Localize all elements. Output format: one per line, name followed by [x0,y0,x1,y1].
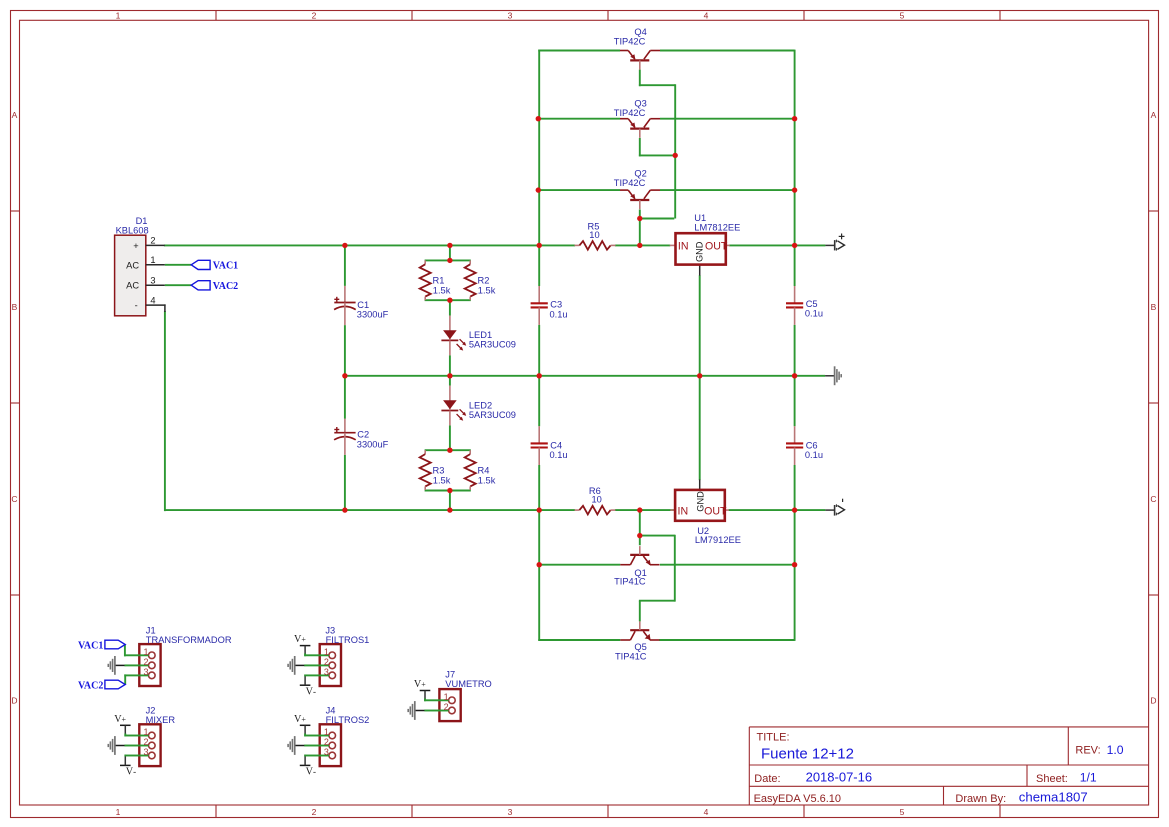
junction dots [536,116,541,121]
svg-text:1.0: 1.0 [1107,743,1124,757]
svg-text:Q4: Q4 [634,27,646,37]
wire J2 pin1 [124,734,126,737]
svg-text:A: A [1151,110,1157,120]
svg-text:LM7812EE: LM7812EE [694,222,740,232]
capacitor C6 0.1u [786,426,823,465]
resistor R2 1.5k [465,260,496,300]
svg-text:4: 4 [704,11,709,21]
svg-text:5AR3UC09: 5AR3UC09 [469,410,516,420]
svg-text:3: 3 [508,807,513,817]
wire J1 pin1 [124,645,126,657]
svg-text:AC: AC [126,281,139,291]
wire main top rail seg1 [164,244,575,246]
svg-text:1/1: 1/1 [1080,771,1097,785]
svg-text:TIP42C: TIP42C [614,178,646,188]
power flag V+ at J7 [420,690,431,692]
wire D1 pin4 down [164,311,166,511]
connector J1 TRANSFORMADOR [139,626,232,687]
svg-text:3300uF: 3300uF [357,439,389,449]
resistor R1 1.5k [420,260,451,300]
wire Q5 row left [538,639,620,641]
svg-text:J1: J1 [146,626,156,636]
svg-text:R3: R3 [433,465,445,475]
svg-text:1: 1 [144,647,149,657]
LED LED2 [441,386,516,426]
svg-text:chema1807: chema1807 [1019,790,1088,805]
wire J4 pin1 [304,734,306,737]
wire Q5 row right [659,639,794,641]
ground J2 pin2 [115,745,125,747]
power flag V- at J3 [300,684,311,686]
power flag V+ at J2 [120,724,131,726]
power flag V- at J4 [300,764,311,766]
svg-text:GND: GND [695,491,705,512]
netflag VAC2 at J1 [105,680,125,689]
svg-text:Fuente 12+12: Fuente 12+12 [761,746,854,763]
svg-text:TITLE:: TITLE: [757,732,790,744]
connector J4 FILTROS2 [320,706,370,767]
svg-text:0.1u: 0.1u [805,308,823,318]
svg-text:C3: C3 [550,300,562,310]
svg-text:IN: IN [678,241,689,253]
svg-text:3: 3 [150,276,155,286]
svg-text:TIP41C: TIP41C [615,652,647,662]
capacitor C4 0.1u [531,426,568,465]
svg-text:3: 3 [324,747,329,757]
wire U2 GND to mid rail [699,376,701,480]
wire J3 pin3 [304,674,320,676]
svg-text:KBL608: KBL608 [116,225,149,235]
transistor Q2 TIP42C [614,168,660,209]
ground J1 pin2 [115,664,125,666]
svg-text:4: 4 [704,807,709,817]
resistor R4 1.5k [465,450,496,490]
resistor R3 1.5k [420,450,451,490]
svg-text:2018-07-16: 2018-07-16 [806,770,873,785]
svg-text:1: 1 [150,255,155,265]
wire Q3 row right [660,118,795,120]
svg-text:0.1u: 0.1u [805,450,823,460]
wire Q2 row right [660,189,795,191]
transistor Q5 TIP41C [615,621,660,661]
svg-text:VAC2: VAC2 [78,681,103,692]
svg-text:1: 1 [116,11,121,21]
wire Q3 row left [538,118,620,120]
wire left rail [538,50,540,286]
power flag V- at J2 [120,764,131,766]
svg-text:3: 3 [144,667,149,677]
svg-text:LM7912EE: LM7912EE [695,535,741,545]
svg-text:1: 1 [144,727,149,737]
capacitor C2 electrolytic [334,419,389,455]
netflag V- output [825,499,844,516]
svg-text:5: 5 [900,11,905,21]
svg-text:OUT: OUT [705,241,728,253]
wire Q2 row left [538,189,620,191]
svg-text:V+: V+ [294,634,306,645]
svg-text:5: 5 [900,807,905,817]
svg-text:C4: C4 [550,441,562,451]
voltage regulator U1 LM7812EE [670,213,741,276]
svg-text:1.5k: 1.5k [478,475,496,485]
svg-text:2: 2 [324,657,329,667]
svg-text:C6: C6 [806,441,818,451]
wire Q3 collector jog [639,138,641,157]
svg-text:2: 2 [444,702,449,712]
wire lower rail seg1 [165,509,575,511]
wire Q2 collector to main [639,210,641,246]
svg-text:REV:: REV: [1075,745,1100,757]
wire Q4 row left [538,50,620,52]
svg-text:V+: V+ [294,714,306,725]
connector J2 MIXER [139,706,175,767]
title block [749,727,1148,805]
svg-text:5AR3UC09: 5AR3UC09 [469,340,516,350]
wire R1R2 top node [425,259,471,261]
wire Q1 branch [639,510,641,545]
power flag V+ at J4 [300,724,311,726]
capacitor C5 0.1u [786,286,823,325]
wire U1 GND to mid rail [699,275,701,376]
svg-text:GND: GND [694,241,704,262]
wire D1 pin1 to VAC1 [165,264,191,266]
wire R1R2 bottom node [425,299,471,301]
svg-text:10: 10 [592,494,602,504]
wire Q4 row right [660,50,795,52]
wire lower rail seg3 [729,509,826,511]
svg-text:2: 2 [324,737,329,747]
svg-text:R1: R1 [433,275,445,285]
svg-text:AC: AC [126,260,139,270]
svg-text:V+: V+ [114,714,126,725]
svg-text:IN: IN [678,506,689,518]
wire mid ground rail [345,375,825,377]
svg-text:0.1u: 0.1u [550,309,568,319]
wire chain join to Q2 stub [640,218,675,220]
svg-text:B: B [1151,302,1157,312]
svg-text:OUT: OUT [704,506,727,518]
transistor Q3 TIP42C [614,98,660,137]
connector J7 VUMETRO [439,670,491,722]
LED LED1 [441,316,516,356]
svg-text:Q3: Q3 [634,98,646,108]
wire R1R2/LED column [449,245,451,260]
svg-text:0.1u: 0.1u [550,450,568,460]
netflag VAC2 [191,281,210,290]
svg-text:V-: V- [306,767,316,778]
svg-text:-: - [135,300,138,310]
svg-text:Q2: Q2 [634,168,646,178]
svg-text:3: 3 [508,11,513,21]
svg-text:Date:: Date: [754,773,780,785]
wire C1-C2 column [344,245,346,286]
svg-text:2: 2 [312,807,317,817]
svg-text:R4: R4 [478,465,490,475]
svg-text:VAC1: VAC1 [213,261,238,272]
svg-text:J7: J7 [445,670,455,680]
svg-text:C: C [1150,494,1156,504]
svg-text:TIP42C: TIP42C [614,108,646,118]
svg-text:1: 1 [324,727,329,737]
svg-text:V-: V- [126,767,136,778]
svg-text:J3: J3 [325,626,335,636]
svg-text:2: 2 [150,236,155,246]
svg-text:MIXER: MIXER [146,715,176,725]
svg-text:Sheet:: Sheet: [1036,773,1068,785]
svg-text:B: B [12,302,18,312]
wire D1 pin3 to VAC2 [165,284,191,286]
svg-text:1.5k: 1.5k [433,285,451,295]
wire J3 pin1 [304,653,306,656]
svg-text:LED1: LED1 [469,330,492,340]
power flag V+ at J3 [300,645,311,647]
voltage regulator U2 LM7912EE [670,480,741,545]
svg-text:J4: J4 [326,706,336,716]
wire right rail [794,50,796,286]
svg-text:2: 2 [312,11,317,21]
wire lower rail seg2 [615,509,676,511]
wire J1 pin3 [124,674,126,684]
ground J7 pin2 [415,710,425,712]
ground J3 pin2 [295,664,305,666]
svg-text:10: 10 [589,230,599,240]
svg-text:2: 2 [144,657,149,667]
resistor R5 10 [575,222,616,250]
capacitor C3 0.1u [531,286,568,325]
svg-text:1: 1 [444,692,449,702]
svg-text:C1: C1 [357,300,369,310]
wire R3R4 bottom node [425,490,471,492]
svg-text:1: 1 [324,647,329,657]
svg-text:4: 4 [150,295,155,305]
svg-text:V-: V- [306,686,316,697]
svg-text:Drawn By:: Drawn By: [955,793,1006,805]
svg-text:FILTROS1: FILTROS1 [326,635,370,645]
svg-text:+: + [133,241,138,251]
svg-text:TIP41C: TIP41C [614,577,646,587]
svg-text:VAC1: VAC1 [78,641,103,652]
svg-text:V+: V+ [414,679,426,690]
svg-text:R2: R2 [478,275,490,285]
netflag V+ output [825,234,844,251]
wire main top rail seg2 [615,244,670,246]
svg-text:3: 3 [144,747,149,757]
ground flag right [825,366,841,385]
wire J2 pin3 [124,755,139,757]
svg-text:TRANSFORMADOR: TRANSFORMADOR [146,635,232,645]
svg-text:1: 1 [116,807,121,817]
svg-text:A: A [12,110,18,120]
svg-text:Q5: Q5 [634,642,646,652]
netflag VAC1 at J1 [105,640,125,649]
svg-text:LED2: LED2 [469,400,492,410]
svg-text:3: 3 [324,667,329,677]
svg-text:C: C [11,494,17,504]
connector J3 FILTROS1 [320,626,370,687]
netflag VAC1 [191,260,210,269]
resistor R6 10 [575,486,616,515]
ground J4 pin2 [295,745,305,747]
wire Q1 row left [539,564,620,566]
wire Q5 base stub [639,601,641,622]
svg-text:VUMETRO: VUMETRO [445,679,492,689]
wire J7 pin1 [424,698,426,701]
capacitor C1 electrolytic [334,286,389,325]
svg-text:3300uF: 3300uF [357,309,389,319]
svg-text:2: 2 [144,737,149,747]
svg-text:VAC2: VAC2 [213,281,238,292]
svg-text:FILTROS2: FILTROS2 [326,715,370,725]
wire R3R4 top node [425,449,471,451]
svg-text:C5: C5 [806,299,818,309]
svg-text:1.5k: 1.5k [433,475,451,485]
transistor Q1 TIP41C [614,546,659,586]
svg-text:C2: C2 [357,429,369,439]
wire J4 pin3 [304,755,320,757]
svg-text:1.5k: 1.5k [478,285,496,295]
wire Q4 collector jog [639,70,641,87]
svg-text:EasyEDA V5.6.10: EasyEDA V5.6.10 [754,793,841,805]
svg-text:D: D [1150,696,1156,706]
transistor Q4 TIP42C [614,27,660,70]
svg-text:J2: J2 [146,706,156,716]
wire Q4-Q3 chain vertical [674,84,676,218]
rectifier D1 KBL608 [115,216,166,316]
wire main top rail seg3 [729,244,825,246]
svg-text:TIP42C: TIP42C [614,37,646,47]
wire Q1 row right [660,564,795,566]
svg-text:D: D [11,696,17,706]
